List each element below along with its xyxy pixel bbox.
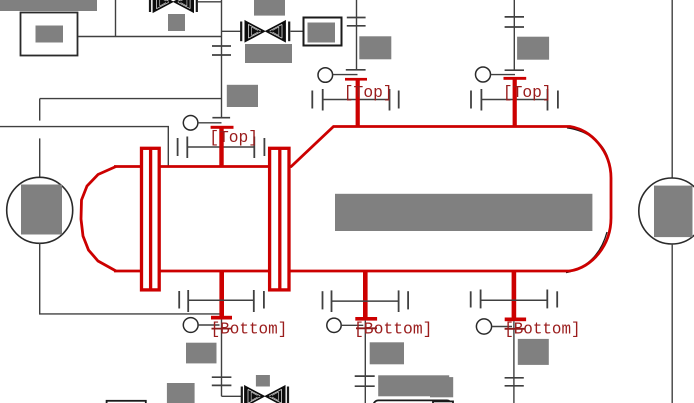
valve V3 (bottom, clipped) [242, 386, 288, 403]
nozzle pipe B2 bottom [363, 271, 368, 318]
greeked text in left circle [21, 185, 62, 235]
flange F2 centerline [278, 148, 281, 290]
flange pair below B3 [505, 377, 524, 379]
svg-text:[Bottom]: [Bottom] [504, 320, 580, 339]
svg-text:[Top]: [Top] [344, 84, 393, 103]
wire circle to B2 [341, 324, 363, 326]
vessel left head [81, 167, 116, 272]
instrument circle left [7, 177, 73, 243]
wire right riser [671, 0, 673, 178]
nozzle pipe N2 top [356, 79, 360, 127]
wire drop to instrument circle (upper part) [39, 99, 41, 121]
flange symbol at nozzle N1 top [178, 137, 265, 159]
greeked text below valve V2 [245, 44, 292, 63]
nozzle cap N2 top [345, 78, 367, 81]
greeked text B1 lower-left [167, 383, 195, 403]
rounded box below B2 [373, 400, 451, 403]
flange symbol at nozzle B1 [179, 290, 264, 312]
flange pair x=514.3 [505, 16, 524, 18]
greeked text in box U2 [308, 23, 336, 43]
wire below cap B2 [364, 321, 366, 403]
wire riser to valve V2 [222, 30, 241, 32]
vent cap nozzle N2 [346, 69, 366, 71]
greeked text in box U1 [36, 26, 64, 43]
vent cap nozzle N1 [212, 117, 230, 119]
flange pair below B2 [355, 375, 375, 377]
nozzle pipe B1 bottom [219, 271, 224, 317]
nozzle cap N3 top [504, 77, 527, 80]
instrument circle B3 [476, 319, 491, 334]
wire left stub y=126.6 [0, 127, 168, 166]
wire box U1 to main riser [78, 36, 222, 38]
instrument circle at nozzle N1 top [183, 116, 198, 131]
greeked text mid-bottom [430, 377, 453, 397]
vessel girth flange F1 [142, 148, 160, 290]
top branch at x=514.3: wire [513, 0, 515, 70]
wire circle to B3 [492, 326, 512, 328]
wire drop to instrument circle (lower part) [39, 138, 41, 177]
wire circle to nozzle N2 [333, 74, 358, 76]
flange pair on riser [212, 45, 231, 47]
wire circle to nozzle N1 [198, 122, 222, 124]
vessel main body outline [291, 127, 611, 272]
greeked text B3 upper [518, 339, 549, 365]
instrument box U2 [304, 18, 342, 46]
nozzle pipe N1 top [219, 128, 223, 168]
vent cap nozzle N3 [505, 69, 524, 71]
flange pair x=356.5 [347, 17, 366, 19]
wire circle to nozzle N3 [491, 74, 516, 76]
nozzle cap B2 bottom [355, 317, 377, 321]
wire left header y=98.6 [40, 98, 222, 100]
flange symbol at nozzle N2 top [312, 89, 398, 111]
instrument box bottom-left [107, 401, 146, 403]
wire top drop at x=115.5 [115, 0, 117, 37]
greeked text above valve V2 [254, 0, 285, 16]
greeked text under valve V1 [168, 14, 185, 31]
instrument circle at nozzle N3 [476, 67, 491, 82]
wire below left circle [40, 243, 220, 314]
stub cap B2 [356, 327, 377, 329]
stub cap B1 [212, 328, 232, 330]
flange symbol at nozzle B3 [471, 290, 558, 309]
instrument circle at nozzle N2 [318, 68, 333, 83]
nozzle pipe B3 bottom [512, 271, 517, 318]
wire valve V2 to box U2 [291, 30, 304, 32]
valve V2 [241, 21, 289, 41]
wire circle to B1 [198, 324, 219, 326]
instrument circle B1 [183, 318, 198, 333]
flange pair below B1 [212, 376, 232, 378]
nozzle cap B1 bottom [211, 316, 232, 320]
nozzle cap N1 top [211, 126, 234, 129]
svg-text:[Bottom]: [Bottom] [354, 320, 433, 339]
wire below cap B1 [221, 320, 223, 397]
flange symbol at nozzle B2 [323, 290, 409, 312]
wire below cap B3 [513, 321, 515, 403]
svg-text:[Top]: [Top] [209, 129, 258, 148]
greeked text top-left bar [0, 0, 97, 11]
svg-text:[Bottom]: [Bottom] [211, 320, 288, 339]
big greeked text in vessel [335, 194, 592, 231]
greeked text above valve V3 [256, 375, 270, 387]
nozzle pipe N3 top [513, 79, 517, 127]
greeked text B1 upper [186, 343, 217, 364]
wire elbow B1 to valve V3 [222, 395, 242, 397]
greeked text B2 upper [370, 342, 404, 364]
valve V1 (top, clipped) [150, 0, 197, 12]
greeked text right of x=514.3 wire [517, 37, 549, 60]
vessel shell bottom [114, 270, 570, 273]
greeked text right of riser x=221.5 [227, 85, 258, 107]
stub cap B3 [505, 328, 525, 330]
wire valve V1 to riser [198, 1, 222, 3]
flange F1 centerline [149, 148, 152, 290]
instrument circle right [639, 178, 694, 244]
wire below right circle [671, 244, 673, 403]
nozzle cap B3 bottom [505, 318, 526, 322]
instrument circle B2 [327, 318, 341, 332]
vessel shadow arc right [567, 128, 608, 158]
instrument box U1 [21, 13, 78, 56]
top branch at x=356.5: wire [356, 0, 358, 70]
wire main riser x=221.5 [221, 0, 223, 118]
greeked text right of x=356.5 wire [359, 36, 391, 59]
svg-text:[Top]: [Top] [503, 84, 552, 103]
vessel shell top (left section) [114, 165, 292, 168]
vessel girth flange F2 [270, 148, 289, 290]
flange symbol at nozzle N3 top [471, 89, 558, 111]
greeked text B2 lower [378, 375, 449, 396]
greeked text in right circle [654, 186, 693, 238]
instrument box mid-bottom [433, 401, 453, 403]
